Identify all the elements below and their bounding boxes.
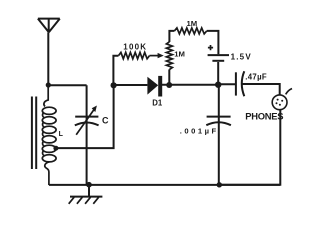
node .001uF / bottom rail junction <box>217 182 222 187</box>
svg-text:1M: 1M <box>174 50 185 59</box>
resistor 1M (top) <box>174 28 206 34</box>
label D1 <box>152 98 163 107</box>
wire phones bottom / right rail <box>220 110 281 185</box>
node diode/tap/100K junction <box>111 82 117 88</box>
wire battery bottom lead <box>217 62 219 85</box>
battery B1 1.5V <box>208 45 229 61</box>
svg-text:D1: D1 <box>152 98 163 107</box>
wire C branch vertical <box>86 85 88 185</box>
svg-text:C: C <box>102 115 109 125</box>
wire coil tap to diode junction <box>56 85 114 148</box>
wiper arrow into potentiometer <box>150 53 164 58</box>
label 1M (potentiometer) <box>174 50 185 59</box>
wire 1M right lead to battery <box>207 31 219 54</box>
diode D1 <box>147 76 162 97</box>
wire junction to C branch <box>48 84 86 86</box>
antenna <box>38 19 60 33</box>
label 1.5V <box>231 52 252 61</box>
capacitor .47uF <box>236 71 244 96</box>
node ground junction <box>86 182 92 188</box>
wire .47uF to phones <box>242 84 280 95</box>
label 1M (top resistor) <box>187 19 198 28</box>
label PHONES <box>245 111 283 122</box>
label C <box>102 115 109 125</box>
label L <box>59 131 64 138</box>
inductor L core <box>32 97 36 170</box>
wire diode to battery junction <box>162 84 218 86</box>
wire .001uF branch <box>218 85 220 185</box>
svg-text:.47µF: .47µF <box>245 73 267 82</box>
resistor 100K <box>119 52 150 58</box>
svg-text:.001µF: .001µF <box>180 127 219 136</box>
wire antenna lead <box>47 33 49 86</box>
node coil tap <box>53 146 58 151</box>
capacitor C (variable) <box>75 106 99 135</box>
svg-text:1M: 1M <box>187 19 198 28</box>
node battery / .001uF junction <box>215 82 221 88</box>
inductor L coil <box>42 85 56 185</box>
svg-text:1.5V: 1.5V <box>231 52 252 61</box>
node diode cathode / pot junction <box>166 82 172 88</box>
label 100K <box>123 43 147 52</box>
svg-text:L: L <box>59 131 64 138</box>
ground <box>69 185 103 204</box>
wire bottom rail <box>49 184 280 186</box>
wire potentiometer top lead <box>169 31 174 42</box>
node antenna/coil/C junction <box>46 82 51 87</box>
wire 100K left lead <box>113 56 118 86</box>
potentiometer 1M (vertical) <box>166 42 172 70</box>
svg-text:100K: 100K <box>123 43 147 52</box>
wire battery junction to .47uF <box>218 83 235 85</box>
wire diode junction to diode <box>114 84 148 86</box>
label .001uF <box>180 127 219 136</box>
svg-text:PHONES: PHONES <box>245 111 283 122</box>
wire potentiometer bottom lead <box>168 69 170 85</box>
label .47uF <box>245 73 267 82</box>
capacitor .001uF <box>206 117 231 126</box>
phones jack J1 <box>272 89 292 110</box>
